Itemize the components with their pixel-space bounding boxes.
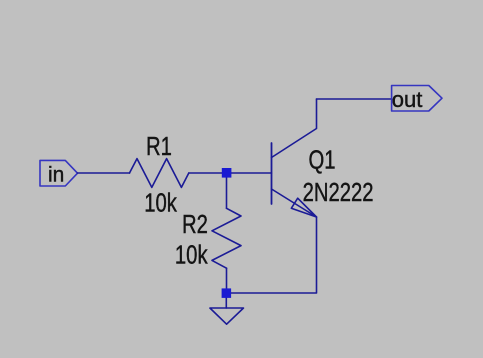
resistor R2 bbox=[212, 208, 241, 268]
svg-text:out: out bbox=[392, 87, 423, 112]
svg-text:2N2222: 2N2222 bbox=[303, 178, 374, 207]
label R2 bbox=[182, 210, 208, 239]
resistor R1 bbox=[130, 159, 189, 188]
label 10k of R1 bbox=[144, 188, 177, 217]
label R1 bbox=[146, 131, 172, 160]
svg-text:10k: 10k bbox=[144, 188, 177, 217]
transistor Q1 collector bbox=[272, 99, 317, 158]
wire emitter bottom bbox=[226, 217, 316, 293]
wire collector to out bbox=[317, 98, 392, 100]
wire in to R1 bbox=[78, 172, 130, 174]
junction node B bbox=[222, 288, 232, 298]
wire R1 to node A bbox=[189, 172, 272, 174]
ground bbox=[210, 308, 244, 324]
port in bbox=[40, 160, 78, 186]
label 2N2222 bbox=[303, 178, 374, 207]
transistor Q1 base bar bbox=[271, 143, 273, 204]
wire node B to ground bbox=[225, 293, 227, 308]
wire R2 to node B bbox=[226, 268, 228, 293]
label 10k of R2 bbox=[175, 240, 208, 269]
svg-text:R1: R1 bbox=[146, 131, 172, 160]
port out bbox=[392, 86, 442, 112]
junction node A bbox=[222, 168, 232, 178]
svg-text:10k: 10k bbox=[175, 240, 208, 269]
svg-text:R2: R2 bbox=[182, 210, 208, 239]
transistor Q1 emitter arrow bbox=[291, 198, 316, 217]
label Q1 bbox=[309, 145, 336, 174]
svg-text:in: in bbox=[48, 163, 64, 186]
wire node A to R2 bbox=[226, 173, 228, 208]
transistor Q1 emitter bbox=[272, 189, 317, 217]
svg-text:Q1: Q1 bbox=[309, 145, 336, 174]
